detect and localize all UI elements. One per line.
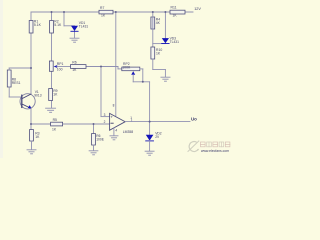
op-amp U1 LM358 bbox=[104, 103, 134, 134]
svg-text:1K: 1K bbox=[72, 68, 77, 72]
resistor R2 bbox=[50, 20, 62, 33]
wire VD2 to ground bbox=[149, 141, 151, 151]
svg-text:RP1: RP1 bbox=[57, 62, 64, 66]
resistor R10 bbox=[151, 47, 162, 59]
svg-text:1K: 1K bbox=[101, 14, 106, 18]
svg-text:8: 8 bbox=[113, 103, 115, 107]
ground R3 bbox=[27, 150, 36, 154]
page edge highlight bbox=[0, 0, 3, 158]
svg-text:R11: R11 bbox=[171, 5, 177, 9]
wire R8 bottom to base bbox=[9, 87, 21, 97]
wire VD3 column from rail bbox=[164, 12, 166, 38]
node Uo output label bbox=[191, 117, 197, 122]
svg-text:1K: 1K bbox=[156, 51, 161, 55]
resistor R1 bbox=[29, 20, 41, 33]
transistor V1 9013 bbox=[20, 90, 42, 109]
wire R2 pot chain column bbox=[51, 12, 53, 108]
svg-text:2: 2 bbox=[104, 120, 106, 124]
svg-text:+: + bbox=[110, 114, 113, 119]
wire emitter down to lower rail bbox=[30, 108, 32, 129]
svg-text:100: 100 bbox=[57, 67, 63, 71]
svg-text:1K: 1K bbox=[53, 93, 58, 97]
resistor R9 bbox=[49, 89, 58, 101]
wire R10 bottom to node B bbox=[153, 59, 166, 77]
wire R4 column and node A bbox=[153, 12, 166, 47]
resistor R8 bbox=[7, 70, 20, 87]
wire pin 3 drop bbox=[101, 67, 110, 117]
svg-text:5.1K: 5.1K bbox=[34, 23, 42, 27]
potentiometer RP2 bbox=[122, 62, 140, 75]
wire R3 to ground bbox=[31, 141, 33, 150]
diode VD1 TL431 bbox=[71, 21, 88, 31]
svg-text:5.1K: 5.1K bbox=[54, 23, 62, 27]
svg-text:3: 3 bbox=[104, 113, 106, 117]
potentiometer RP1 bbox=[49, 61, 63, 71]
ground R6b bbox=[89, 151, 98, 155]
wire op-amp pin 4 drop bbox=[113, 128, 115, 136]
svg-text:12V: 12V bbox=[194, 7, 201, 11]
wire RP2 wiper and right end loop bbox=[133, 69, 149, 82]
diode VD3 TL431 bbox=[162, 37, 179, 45]
resistor R5 (horizontal) bbox=[51, 118, 63, 131]
svg-text:R6: R6 bbox=[72, 61, 76, 65]
wire output net bbox=[125, 119, 190, 121]
wire RP1 wiper to R6 to pin3 node bbox=[57, 67, 122, 69]
resistor R11 (horizontal, in rail) bbox=[170, 5, 185, 17]
watermark chinese characters bbox=[201, 142, 230, 147]
resistor R6b 100E bbox=[92, 134, 105, 146]
svg-text:1K: 1K bbox=[173, 14, 178, 18]
svg-text:9013: 9013 bbox=[34, 94, 42, 98]
svg-text:RES1: RES1 bbox=[12, 81, 21, 85]
svg-text:Uo: Uo bbox=[191, 117, 197, 122]
svg-text:www.elecfans.com: www.elecfans.com bbox=[201, 149, 229, 153]
wire op-amp pin 8 power column bbox=[115, 12, 117, 116]
watermark logo swoosh bbox=[188, 141, 199, 152]
wire feedback column down to output node bbox=[149, 82, 151, 135]
resistor R6 (horizontal) bbox=[71, 61, 87, 72]
svg-text:R5: R5 bbox=[53, 118, 57, 122]
wire R1 collector column bbox=[30, 12, 32, 94]
ground node B bbox=[161, 77, 170, 81]
svg-text:TL431: TL431 bbox=[79, 25, 89, 29]
svg-text:1K: 1K bbox=[52, 128, 57, 132]
svg-text:4: 4 bbox=[115, 128, 117, 132]
svg-text:100K: 100K bbox=[122, 65, 131, 69]
svg-text:4K: 4K bbox=[156, 21, 161, 25]
wire top supply rail bbox=[31, 11, 193, 13]
wire lower horizontal net to op-amp pin 2 bbox=[31, 123, 110, 125]
ground op-amp pin 4 bbox=[110, 136, 118, 140]
wire R8 top to collector node bbox=[9, 68, 31, 70]
svg-text:R7: R7 bbox=[100, 6, 104, 10]
resistor R7 (horizontal, in rail) bbox=[99, 6, 113, 17]
resistor R4 bbox=[151, 17, 161, 29]
ground VD1 bbox=[70, 38, 79, 42]
wire R6b to ground bbox=[93, 145, 95, 151]
diode VD2 bbox=[146, 131, 162, 141]
wire R6b tap down from pin2 net bbox=[93, 124, 95, 134]
node 12V input label bbox=[194, 7, 201, 11]
watermark url text bbox=[201, 149, 229, 153]
svg-text:LM358: LM358 bbox=[123, 130, 133, 134]
ground VD2 bbox=[145, 151, 154, 155]
svg-text:100E: 100E bbox=[96, 138, 105, 142]
ground R9 bbox=[46, 108, 56, 112]
svg-text:1K: 1K bbox=[35, 135, 40, 139]
resistor R3 bbox=[30, 130, 40, 142]
svg-text:TL431: TL431 bbox=[170, 40, 180, 44]
wire VD1 stub from rail bbox=[64, 12, 75, 38]
junction dots bbox=[30, 11, 166, 125]
